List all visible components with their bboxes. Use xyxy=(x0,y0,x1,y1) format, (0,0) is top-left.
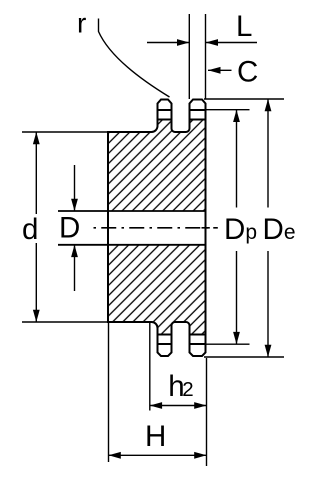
L dimension line right segment xyxy=(206,42,258,44)
tooth cross line top y=110 xyxy=(157,109,173,111)
L dimension line left segment xyxy=(147,42,189,44)
leader r xyxy=(99,19,170,98)
centerline xyxy=(94,227,218,229)
D dimension line upper xyxy=(74,165,76,211)
Dp extension top xyxy=(206,109,250,111)
D dimension line lower xyxy=(74,245,76,291)
De dimension line xyxy=(267,99,269,208)
L extension line right xyxy=(205,14,207,99)
h2 dimension line xyxy=(150,405,207,407)
sprocket body hatching (sectioned area) xyxy=(100,120,212,335)
De extension top xyxy=(204,98,284,100)
tooth cross line top y=119.5 xyxy=(157,119,173,121)
svg-text:De: De xyxy=(263,213,296,246)
Dp extension bottom xyxy=(206,343,250,345)
d extension top xyxy=(22,131,108,133)
bore bottom line xyxy=(58,244,206,246)
H extension left xyxy=(108,322,110,462)
C arrow xyxy=(208,69,232,71)
h2 extension left xyxy=(149,323,151,411)
svg-text:h2: h2 xyxy=(168,370,193,403)
Dp dimension line xyxy=(236,110,238,208)
svg-text:H: H xyxy=(145,420,166,453)
De extension bottom xyxy=(204,356,284,358)
svg-text:L: L xyxy=(236,10,252,43)
H dimension line xyxy=(109,454,207,456)
svg-text:C: C xyxy=(237,55,258,88)
tooth cross line bottom y=334.5 xyxy=(157,334,173,336)
svg-text:d: d xyxy=(22,213,38,246)
L extension line left xyxy=(188,14,190,99)
sprocket outline xyxy=(108,100,206,357)
h2 / H extension right xyxy=(206,358,208,466)
d dimension line xyxy=(35,132,37,214)
svg-text:Dp: Dp xyxy=(224,213,257,246)
d extension bottom xyxy=(22,321,108,323)
svg-text:r: r xyxy=(77,8,86,39)
tooth cross line bottom y=344 xyxy=(157,343,173,345)
bore top line xyxy=(58,210,206,212)
svg-text:D: D xyxy=(59,211,80,244)
